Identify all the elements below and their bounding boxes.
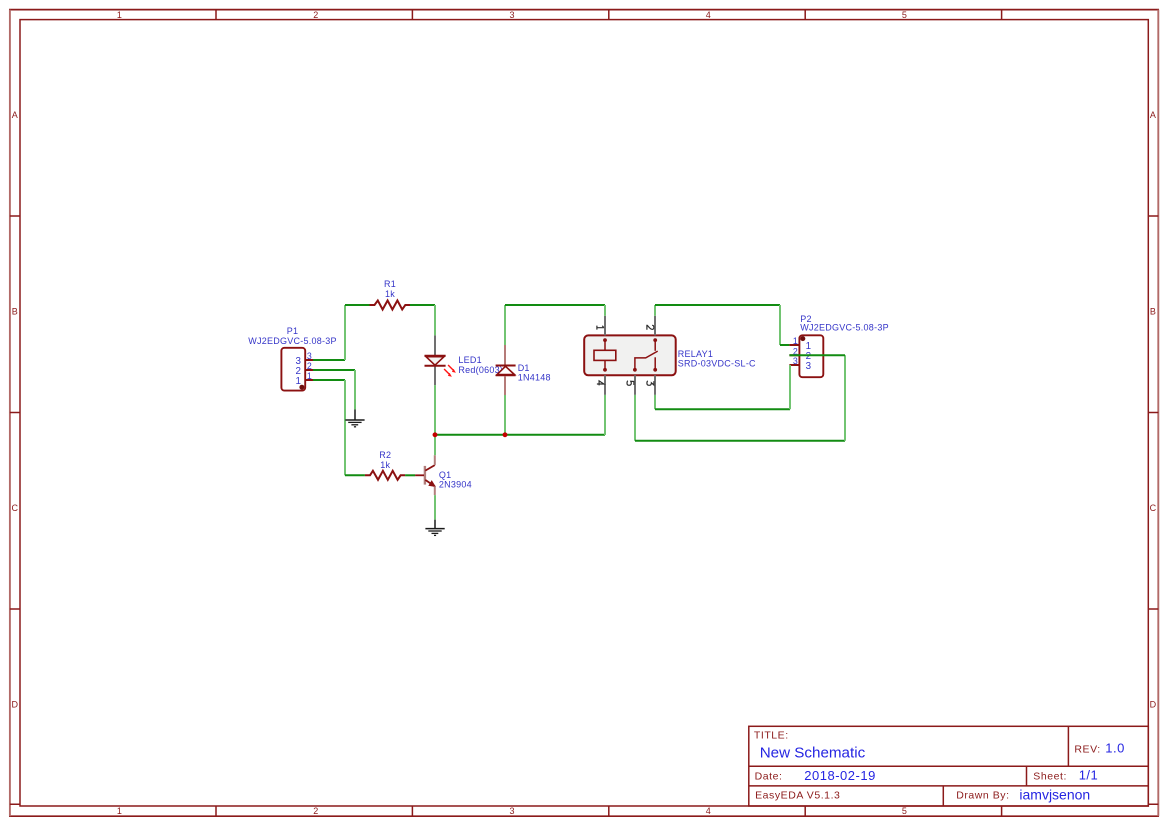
svg-text:1.0: 1.0 [1105, 741, 1125, 756]
wire D1 cathode to relay pin1 [505, 305, 605, 345]
svg-text:A: A [1150, 110, 1156, 120]
connector P2 [789, 335, 823, 377]
wire P1 pin2 to ground [313, 370, 355, 410]
svg-text:2: 2 [313, 10, 318, 20]
wire D1 anode to junction row [504, 395, 506, 435]
title block [749, 726, 1149, 806]
wire relay pin3 to P2 pin3 [655, 365, 790, 409]
RELAY1 labels [678, 349, 756, 369]
LED LED1 [425, 335, 456, 385]
svg-text:3: 3 [509, 10, 514, 20]
svg-text:EasyEDA V5.1.3: EasyEDA V5.1.3 [755, 790, 840, 802]
resistor R1 [370, 301, 411, 310]
svg-text:New Schematic: New Schematic [760, 744, 866, 761]
svg-text:3: 3 [509, 806, 514, 816]
svg-text:LED1: LED1 [458, 355, 482, 365]
wire Q1 collector to junction row [434, 435, 436, 455]
svg-text:Q1: Q1 [439, 470, 452, 480]
relay RELAY1 [584, 335, 676, 375]
svg-text:TITLE:: TITLE: [754, 729, 789, 741]
svg-text:1k: 1k [380, 460, 390, 470]
svg-text:2018-02-19: 2018-02-19 [804, 768, 876, 783]
svg-text:A: A [12, 110, 18, 120]
svg-text:C: C [1150, 503, 1157, 513]
svg-text:2: 2 [307, 361, 312, 371]
P2 reference label [800, 314, 889, 332]
svg-text:B: B [1150, 307, 1156, 317]
junction node at D1 anode [503, 432, 508, 437]
wire LED1 cathode to junction row [434, 385, 436, 435]
P2 pin numbers [793, 336, 798, 366]
svg-text:Sheet:: Sheet: [1033, 771, 1067, 783]
R2 labels [379, 450, 391, 470]
svg-text:1k: 1k [385, 289, 395, 299]
svg-text:1: 1 [117, 10, 122, 20]
svg-text:5: 5 [902, 10, 907, 20]
Q1 labels [439, 470, 472, 490]
svg-text:P1: P1 [287, 326, 299, 336]
svg-text:1: 1 [307, 371, 312, 381]
svg-text:RELAY1: RELAY1 [678, 349, 713, 359]
svg-text:5: 5 [902, 806, 907, 816]
svg-text:1N4148: 1N4148 [518, 373, 551, 383]
svg-text:1: 1 [295, 376, 300, 387]
LED1 labels [458, 355, 503, 375]
svg-text:2N3904: 2N3904 [439, 480, 472, 490]
RELAY1 pin numbers [597, 325, 654, 385]
P1 pin names [295, 356, 301, 387]
svg-text:C: C [11, 503, 18, 513]
svg-text:REV:: REV: [1074, 743, 1100, 755]
wire relay pin5 to P2 pin2 [635, 355, 845, 441]
wire P1 pin1 to R2 [313, 380, 365, 475]
svg-text:1: 1 [793, 336, 798, 346]
resistor R2 [365, 471, 405, 480]
svg-text:Drawn By:: Drawn By: [956, 790, 1009, 802]
svg-text:D: D [1150, 700, 1157, 710]
wire Q1 emitter to ground [434, 495, 436, 520]
diode D1 [496, 345, 516, 395]
svg-text:R2: R2 [379, 450, 391, 460]
svg-text:R1: R1 [384, 279, 396, 289]
junction node at LED/Q1 collector [433, 432, 438, 437]
svg-text:4: 4 [706, 806, 711, 816]
P2 pin names [806, 341, 812, 372]
svg-text:WJ2EDGVC-5.08-3P: WJ2EDGVC-5.08-3P [248, 336, 337, 346]
D1 labels [518, 363, 551, 383]
svg-text:4: 4 [706, 10, 711, 20]
ground at Q1 emitter [425, 520, 444, 536]
svg-text:B: B [12, 307, 18, 317]
svg-text:iamvjsenon: iamvjsenon [1019, 786, 1090, 802]
P1 reference label [248, 326, 337, 346]
ground at P1 pin2 [345, 410, 364, 427]
svg-text:SRD-03VDC-SL-C: SRD-03VDC-SL-C [678, 359, 756, 369]
wire relay pin2 to P2 pin1 [655, 305, 789, 345]
RELAY1 pins [605, 316, 655, 395]
svg-text:3: 3 [806, 361, 812, 372]
svg-text:3: 3 [307, 351, 312, 361]
connector P1 [281, 348, 313, 391]
wire R1 to LED1 anode [410, 305, 435, 335]
R1 labels [384, 279, 396, 299]
wire R2 to Q1 base [405, 474, 415, 476]
svg-text:1: 1 [117, 806, 122, 816]
wire relay pin4 to junction row [604, 395, 606, 435]
wire P1 pin3 to R1 [313, 305, 370, 360]
svg-text:Date:: Date: [755, 771, 783, 783]
P1 pin numbers [307, 351, 312, 381]
svg-text:WJ2EDGVC-5.08-3P: WJ2EDGVC-5.08-3P [800, 322, 889, 332]
wire junction row [435, 434, 605, 436]
transistor Q1 [415, 455, 436, 495]
svg-text:D1: D1 [518, 363, 530, 373]
svg-text:2: 2 [313, 806, 318, 816]
svg-text:D: D [11, 700, 18, 710]
svg-text:3: 3 [793, 356, 798, 366]
svg-text:1/1: 1/1 [1079, 768, 1099, 783]
